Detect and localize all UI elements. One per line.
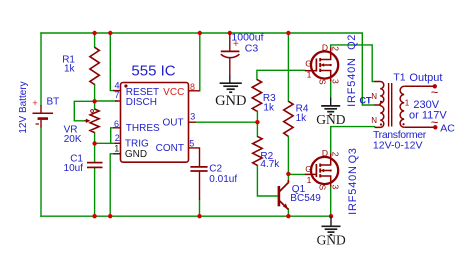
svg-text:S: S <box>317 79 327 85</box>
svg-text:~: ~ <box>431 114 439 129</box>
svg-text:Q2: Q2 <box>346 34 358 50</box>
svg-text:IRF540N: IRF540N <box>346 57 358 107</box>
svg-text:Q3: Q3 <box>347 148 359 164</box>
svg-text:12V Battery: 12V Battery <box>18 81 29 133</box>
svg-text:IRF540N: IRF540N <box>347 165 359 215</box>
svg-text:GND: GND <box>215 93 246 109</box>
svg-text:OUT: OUT <box>162 118 183 129</box>
svg-text:G: G <box>305 58 312 68</box>
svg-text:1: 1 <box>307 175 312 185</box>
svg-text:CONT: CONT <box>156 143 184 154</box>
svg-text:T1: T1 <box>393 71 405 83</box>
svg-text:D: D <box>322 43 328 53</box>
svg-text:VCC: VCC <box>163 87 184 98</box>
svg-text:7: 7 <box>114 90 119 100</box>
svg-text:N: N <box>371 116 377 125</box>
svg-text:S: S <box>317 185 327 191</box>
svg-text:1: 1 <box>114 144 119 154</box>
svg-text:GND: GND <box>125 149 147 160</box>
svg-text:0.01uf: 0.01uf <box>209 174 237 185</box>
svg-text:~: ~ <box>431 85 439 100</box>
svg-text:AC: AC <box>440 123 455 135</box>
svg-text:2: 2 <box>331 46 341 51</box>
svg-text:THRES: THRES <box>126 123 160 134</box>
svg-text:C3: C3 <box>245 42 259 54</box>
svg-text:GND: GND <box>317 232 346 247</box>
svg-text:N: N <box>371 92 377 101</box>
svg-text:3: 3 <box>190 111 195 121</box>
svg-text:1: 1 <box>405 98 410 107</box>
svg-text:CT: CT <box>360 95 372 105</box>
svg-text:BT: BT <box>47 97 60 108</box>
svg-text:5: 5 <box>189 139 194 149</box>
svg-text:D: D <box>322 148 328 158</box>
svg-text:G: G <box>305 164 312 174</box>
svg-text:2: 2 <box>115 133 120 143</box>
svg-text:1: 1 <box>307 69 312 79</box>
svg-text:GND: GND <box>316 112 345 127</box>
svg-text:TRIG: TRIG <box>125 139 149 150</box>
svg-text:3: 3 <box>331 79 341 84</box>
svg-text:DISCH: DISCH <box>126 97 157 108</box>
svg-text:or 117V: or 117V <box>409 109 447 121</box>
svg-text:BC549: BC549 <box>290 193 321 204</box>
svg-text:2: 2 <box>331 152 341 157</box>
svg-text:3: 3 <box>331 185 341 190</box>
svg-text:12V-0-12V: 12V-0-12V <box>373 139 423 151</box>
svg-text:Output: Output <box>409 72 442 84</box>
svg-text:+: + <box>32 98 38 109</box>
svg-text:555 IC: 555 IC <box>131 63 175 80</box>
svg-text:4.7k: 4.7k <box>260 159 280 170</box>
svg-text:1k: 1k <box>64 64 76 75</box>
svg-text:1k: 1k <box>263 102 275 113</box>
svg-text:20K: 20K <box>64 134 82 145</box>
svg-text:10uf: 10uf <box>64 163 84 174</box>
svg-text:1k: 1k <box>296 113 308 124</box>
svg-text:8: 8 <box>190 82 195 92</box>
svg-text:6: 6 <box>114 119 119 129</box>
